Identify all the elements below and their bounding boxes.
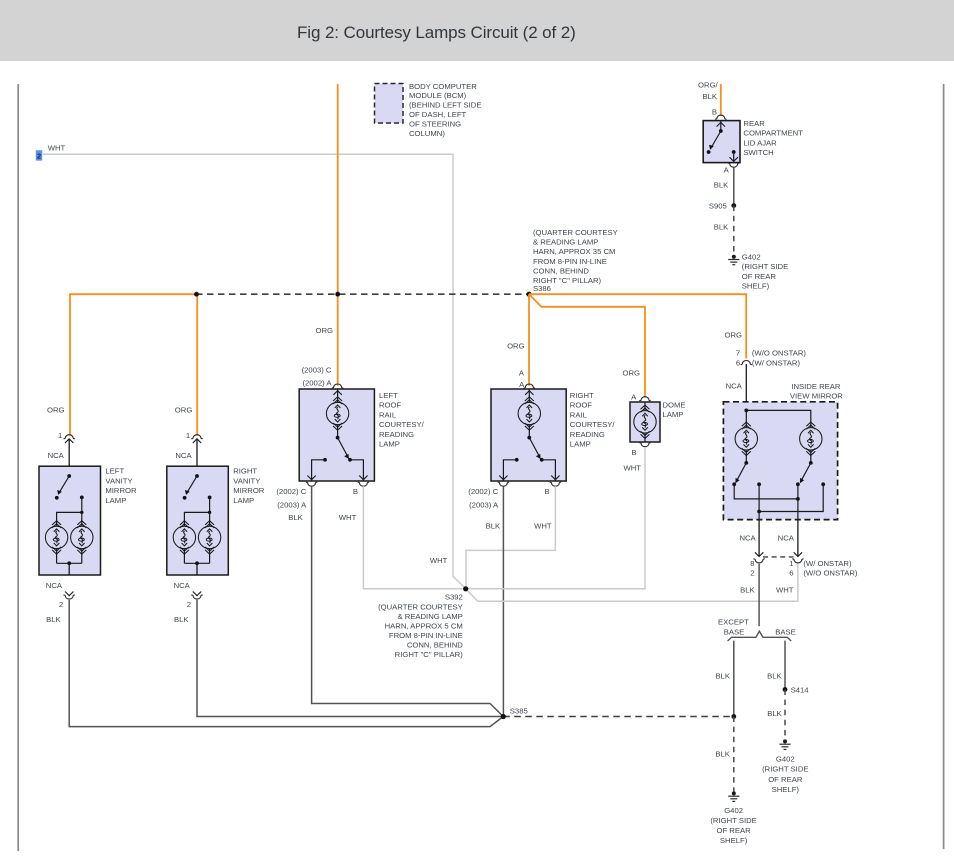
svg-text:BODY COMPUTER: BODY COMPUTER [409,82,477,91]
rear compartment lid ajar switch text [743,119,803,157]
wire ORG drop to right vanity lamp [196,294,198,436]
left vanity mirror lamp text [105,467,137,505]
svg-text:SHELF): SHELF) [742,282,770,291]
svg-text:(2003) A: (2003) A [469,500,499,509]
svg-text:LAMP: LAMP [105,496,126,505]
svg-text:OF REAR: OF REAR [717,826,752,835]
wire WHT from BCM pin 2 to S392 [43,154,466,589]
svg-text:BLK: BLK [767,709,782,718]
svg-text:NCA: NCA [174,581,191,590]
right roof lamp text [570,391,616,449]
svg-text:NCA: NCA [726,382,743,391]
svg-text:(QUARTER COURTESY: (QUARTER COURTESY [533,228,618,237]
svg-text:(W/ ONSTAR): (W/ ONSTAR) [752,358,801,367]
svg-text:SWITCH: SWITCH [743,148,773,157]
svg-text:(RIGHT SIDE: (RIGHT SIDE [710,816,756,825]
svg-text:S392: S392 [445,593,463,602]
ground G402 upper text [742,253,788,291]
connector 8/2 mirror [755,552,763,556]
pin labels below left roof [276,487,358,522]
ground G402 mid-right [779,739,790,749]
svg-text:B: B [712,108,717,117]
svg-text:& READING LAMP: & READING LAMP [397,612,462,621]
svg-text:(QUARTER COURTESY: (QUARTER COURTESY [378,602,463,611]
svg-text:RAIL: RAIL [570,410,588,419]
svg-text:(RIGHT SIDE: (RIGHT SIDE [762,765,808,774]
connector C left roof [306,482,317,486]
ground G402 lower-left text [710,806,756,845]
svg-text:ORG: ORG [507,341,525,350]
wire NCA into mirror [745,364,747,410]
rear compartment lid ajar switch U1 [703,121,740,163]
svg-text:COURTESY/: COURTESY/ [570,420,616,429]
svg-text:OF REAR: OF REAR [768,775,803,784]
svg-text:VANITY: VANITY [233,476,260,485]
svg-text:8: 8 [750,559,754,568]
svg-text:MIRROR: MIRROR [105,486,137,495]
wire BLK base branch [784,641,786,690]
right vanity bulb 2 [198,521,220,554]
svg-text:A: A [519,369,525,378]
wire BLK right roof to S385 [502,486,504,716]
pin labels below right roof [468,487,552,530]
ground G402 lower-left [728,791,739,801]
svg-text:2: 2 [750,569,754,578]
svg-text:2: 2 [59,600,63,609]
svg-text:RIGHT: RIGHT [570,391,594,400]
svg-text:BLK: BLK [174,615,189,624]
svg-text:S414: S414 [791,685,810,694]
svg-text:MODULE (BCM): MODULE (BCM) [409,91,467,100]
splice S386 junction dot [526,292,531,297]
svg-text:BASE: BASE [724,627,745,636]
svg-text:MIRROR: MIRROR [233,486,265,495]
dome bulb [634,405,656,438]
svg-text:RIGHT: RIGHT [233,467,257,476]
svg-text:ORG/: ORG/ [698,80,719,89]
dome lamp text [663,401,686,420]
wire BLK except-base branch [733,641,735,717]
connector 1 left vanity [63,435,74,439]
svg-text:NCA: NCA [778,534,795,543]
wire NCA mirror pin 6 [797,520,799,557]
svg-text:S905: S905 [709,202,727,211]
left roof lamp text [379,391,425,449]
svg-text:BLK: BLK [714,181,729,190]
left roof bulb [326,397,348,430]
mirror pin 7/6 labels [736,349,807,368]
splice S905 dot [731,203,736,208]
svg-text:6: 6 [789,569,793,578]
rear compartment lid ajar switch labels ORG/ BLK [698,80,719,101]
svg-text:SHELF): SHELF) [772,785,800,794]
svg-text:2: 2 [37,152,41,161]
wire dashed bus S385 to except-base junction [503,716,734,718]
S386 note text [533,228,618,293]
svg-text:(W/O ONSTAR): (W/O ONSTAR) [803,569,858,578]
svg-text:BLK: BLK [767,672,782,681]
svg-text:(2002) A: (2002) A [302,379,332,388]
svg-text:OF DASH, LEFT: OF DASH, LEFT [409,110,467,119]
svg-text:G402: G402 [742,253,761,262]
wire dashed bus to S386 [196,293,529,295]
S392 note text [378,593,463,660]
connector B dome [639,443,650,447]
splice S414 dot [783,687,788,692]
svg-text:S386: S386 [533,284,551,293]
svg-text:S385: S385 [510,706,528,715]
svg-text:BLK: BLK [486,521,501,530]
svg-text:ORG: ORG [622,368,640,377]
svg-text:OF REAR: OF REAR [742,272,777,281]
right vanity mirror lamp text [233,467,265,505]
svg-text:RAIL: RAIL [379,410,397,419]
svg-text:COMPARTMENT: COMPARTMENT [743,129,803,138]
svg-text:BLK: BLK [288,513,303,522]
BCM pin 2 highlighted [36,150,42,160]
diagram left border [17,84,19,851]
wire BLK left vanity to S385 [69,600,503,727]
svg-text:HARN, APPROX 35 CM: HARN, APPROX 35 CM [533,247,615,256]
connector 6 mirror [741,361,752,365]
options fork brace [728,631,792,641]
ground G402 mid-right text [762,755,808,794]
svg-text:LEFT: LEFT [105,467,124,476]
svg-text:7: 7 [736,349,740,358]
ground G402 upper [728,255,739,265]
svg-text:BLK: BLK [46,615,61,624]
svg-text:ORG: ORG [175,406,193,415]
svg-text:ROOF: ROOF [379,401,402,410]
right roof rail courtesy reading lamp E4 [491,389,566,481]
svg-text:LEFT: LEFT [379,391,398,400]
svg-text:B: B [545,487,550,496]
connector A [728,163,739,167]
svg-text:INSIDE REAR: INSIDE REAR [791,382,841,391]
wire BLK dashed S905 to ground [733,206,735,255]
right roof bulb [518,397,540,430]
svg-text:FROM 8-PIN IN-LINE: FROM 8-PIN IN-LINE [533,257,607,266]
wire WHT right roof to S392 [466,486,555,589]
svg-text:NCA: NCA [48,451,65,460]
BCM label text [409,82,481,138]
wire BLK dashed S414 to ground [784,690,786,740]
svg-text:FROM 8-PIN IN-LINE: FROM 8-PIN IN-LINE [389,631,463,640]
wire NCA into left vanity lamp [68,440,70,477]
svg-text:(2002) C: (2002) C [468,487,498,496]
svg-text:RIGHT "C" PILLAR): RIGHT "C" PILLAR) [395,650,464,659]
svg-text:BLK: BLK [715,672,730,681]
svg-text:NCA: NCA [739,534,756,543]
svg-text:LAMP: LAMP [570,440,591,449]
svg-text:NCA: NCA [175,451,192,460]
splice S385 junction dot [501,714,506,719]
svg-text:ORG: ORG [47,406,65,415]
junction dot except-base to S385 bus [731,714,736,719]
svg-text:G402: G402 [776,755,795,764]
junction dot [335,292,340,297]
wire BLK mirror to options fork [758,564,760,626]
svg-text:LAMP: LAMP [379,440,400,449]
svg-text:VANITY: VANITY [105,476,132,485]
svg-text:ORG: ORG [724,331,742,340]
svg-text:READING: READING [379,430,414,439]
connector 1 right vanity [191,435,202,439]
svg-text:BLK: BLK [714,223,729,232]
svg-text:ROOF: ROOF [570,401,593,410]
svg-text:READING: READING [570,430,605,439]
svg-text:COURTESY/: COURTESY/ [379,420,425,429]
svg-text:(BEHIND LEFT SIDE: (BEHIND LEFT SIDE [409,101,481,110]
mirror bulb right [800,422,822,455]
splice S392 junction dot [463,586,468,591]
wire BLK switch to S905 [733,168,735,206]
body computer module BCM box [375,84,404,124]
svg-text:B: B [353,487,358,496]
svg-text:WHT: WHT [339,513,357,522]
svg-text:(2002) C: (2002) C [276,487,306,496]
svg-text:G402: G402 [724,806,743,815]
svg-text:WHT: WHT [534,521,552,530]
svg-text:BLK: BLK [702,92,717,101]
svg-text:OF STEERING: OF STEERING [409,119,461,128]
pin labels right roof [519,369,525,390]
svg-text:& READING LAMP: & READING LAMP [533,238,598,247]
right vanity bulb 1 [173,521,195,554]
wire WHT dome to S392 [466,447,645,589]
wire ORG/BLK to lid ajar switch [720,84,722,116]
svg-text:(RIGHT SIDE: (RIGHT SIDE [742,262,788,271]
svg-text:BLK: BLK [740,586,755,595]
connector 1/6 mirror [794,552,802,556]
svg-text:A: A [631,392,637,401]
inside rear view mirror module [723,402,837,520]
connector A right roof [524,384,535,388]
wire ORG from S386 to inside rear view mirror [529,294,746,358]
wire ORG from S386 down to right roof rail lamp [528,294,530,386]
svg-text:LID AJAR: LID AJAR [743,138,777,147]
svg-text:ORG: ORG [315,326,333,335]
right vanity mirror lamp E2 [167,466,229,575]
NCA labels below mirror [739,534,794,543]
options fork labels [718,618,796,637]
svg-text:B: B [631,448,636,457]
connector A dome [639,397,650,401]
svg-text:1: 1 [58,431,62,440]
svg-text:SHELF): SHELF) [720,836,748,845]
svg-text:EXCEPT: EXCEPT [718,618,749,627]
svg-text:1: 1 [186,431,190,440]
svg-text:(W/O ONSTAR): (W/O ONSTAR) [752,349,807,358]
svg-text:CONN, BEHIND: CONN, BEHIND [407,641,463,650]
header title bar [0,0,954,61]
diagram right border [943,84,945,849]
left roof rail courtesy reading lamp E3 [299,389,374,481]
svg-text:WHT: WHT [776,586,794,595]
svg-text:6: 6 [736,358,740,367]
wire BLK right vanity to S385 [197,600,503,717]
connector B right roof [550,482,561,486]
connector 2 left vanity [65,592,73,596]
svg-text:NCA: NCA [46,581,63,590]
svg-text:HARN, APPROX 5 CM: HARN, APPROX 5 CM [385,622,463,631]
connector B left roof [358,482,369,486]
svg-text:WHT: WHT [623,463,641,472]
svg-text:LAMP: LAMP [233,496,254,505]
svg-text:WHT: WHT [430,556,448,565]
svg-text:BASE: BASE [775,627,796,636]
wire NCA into right vanity lamp [196,440,198,477]
wire WHT mirror to S392 [466,564,798,602]
connector A left roof [332,384,343,388]
svg-text:DOME: DOME [663,401,686,410]
mirror connector pin labels [740,559,858,595]
mirror bulb left [735,422,757,455]
svg-text:LAMP: LAMP [663,410,684,419]
wire WHT left roof to S392 [363,486,465,589]
wire ORG bus solid segment to vanity lamps [70,294,196,436]
connector 2 right vanity [193,592,201,596]
junction dot [194,292,199,297]
svg-text:COLUMN): COLUMN) [409,129,445,138]
svg-text:WHT: WHT [48,144,66,153]
pin labels left roof [302,366,333,388]
svg-text:(2003) A: (2003) A [277,500,307,509]
svg-text:REAR: REAR [743,119,765,128]
svg-text:(W/ ONSTAR): (W/ ONSTAR) [803,559,852,568]
svg-text:A: A [724,166,730,175]
dome lamp E5 [630,402,660,442]
svg-text:1: 1 [789,559,793,568]
svg-text:BLK: BLK [715,750,730,759]
in-line connector dashed [763,556,794,558]
left vanity bulb 2 [71,521,93,554]
wire ORG from S386 to dome lamp [529,294,645,397]
svg-text:2: 2 [187,600,191,609]
wire ORG from BCM down to left roof rail lamp [337,84,339,386]
inside rear view mirror text [790,382,843,401]
wire BLK dashed to ground G402 lower-left [733,717,735,792]
connector C right roof [498,482,509,486]
svg-text:(2003) C: (2003) C [302,366,332,375]
svg-text:CONN, BEHIND: CONN, BEHIND [533,266,589,275]
connector B [715,115,726,119]
svg-text:VIEW MIRROR: VIEW MIRROR [790,392,843,401]
wire NCA mirror pin 8 [758,520,760,557]
left vanity bulb 1 [45,521,67,554]
left vanity mirror lamp E1 [39,466,101,575]
wire BLK left roof to S385 [312,486,504,716]
